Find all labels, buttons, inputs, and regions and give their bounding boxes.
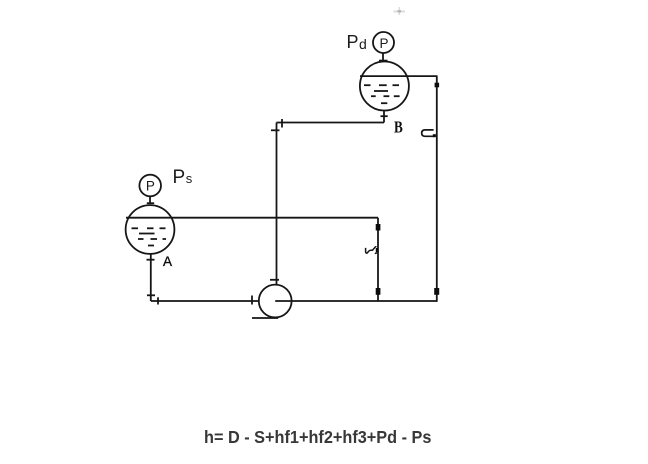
- svg-text:A: A: [163, 254, 172, 269]
- pipe joint tick: [271, 129, 280, 131]
- discharge pipe from pump to right: [275, 300, 437, 302]
- pump circle: [259, 285, 292, 318]
- svg-text:P: P: [146, 179, 155, 194]
- label S (rotated squiggle): [366, 247, 377, 254]
- faint smudge mark top center: [394, 7, 406, 15]
- dimension line S (node to bottom pipe): [377, 218, 379, 301]
- dimension terminator: [376, 224, 381, 231]
- svg-text:B: B: [394, 117, 403, 136]
- svg-text:Pd: Pd: [347, 32, 367, 52]
- pump base line: [252, 317, 278, 319]
- pipe joint tick: [251, 296, 253, 305]
- dimension terminator: [434, 288, 439, 295]
- gauge Ps stem: [149, 196, 151, 204]
- pipe joint tick: [281, 119, 283, 128]
- formula text: [204, 427, 613, 448]
- tank B outlet stub: [383, 110, 385, 122]
- dimension line D (tank B level to bottom pipe): [436, 76, 438, 302]
- tank B liquid dashes: [364, 85, 400, 103]
- suction pipe horizontal to pump: [151, 300, 259, 302]
- discharge pipe horizontal B to riser: [277, 122, 385, 124]
- gauge Pd stem: [382, 53, 384, 62]
- pipe joint tick near pump: [270, 279, 279, 281]
- pipe joint tick: [147, 294, 155, 296]
- pressure gauge Pd: [373, 32, 394, 53]
- svg-text:P: P: [379, 36, 388, 51]
- tank A liquid dashes: [132, 228, 167, 245]
- tank B vessel: [360, 62, 409, 111]
- pipe joint tick: [157, 297, 159, 304]
- tank A liquid level line to node S: [126, 217, 378, 219]
- pressure gauge Ps: [139, 175, 161, 197]
- pipe joint tick: [147, 259, 155, 261]
- tank B liquid level line to node at right pipe: [360, 75, 438, 77]
- dimension terminator: [435, 83, 440, 88]
- riser pipe (pump to corner): [276, 123, 278, 286]
- dimension terminator: [376, 288, 381, 295]
- svg-text:Ps: Ps: [173, 167, 193, 188]
- label D (rotated): [422, 130, 435, 136]
- tank A vessel: [126, 205, 175, 254]
- tank A outlet pipe down: [150, 254, 152, 301]
